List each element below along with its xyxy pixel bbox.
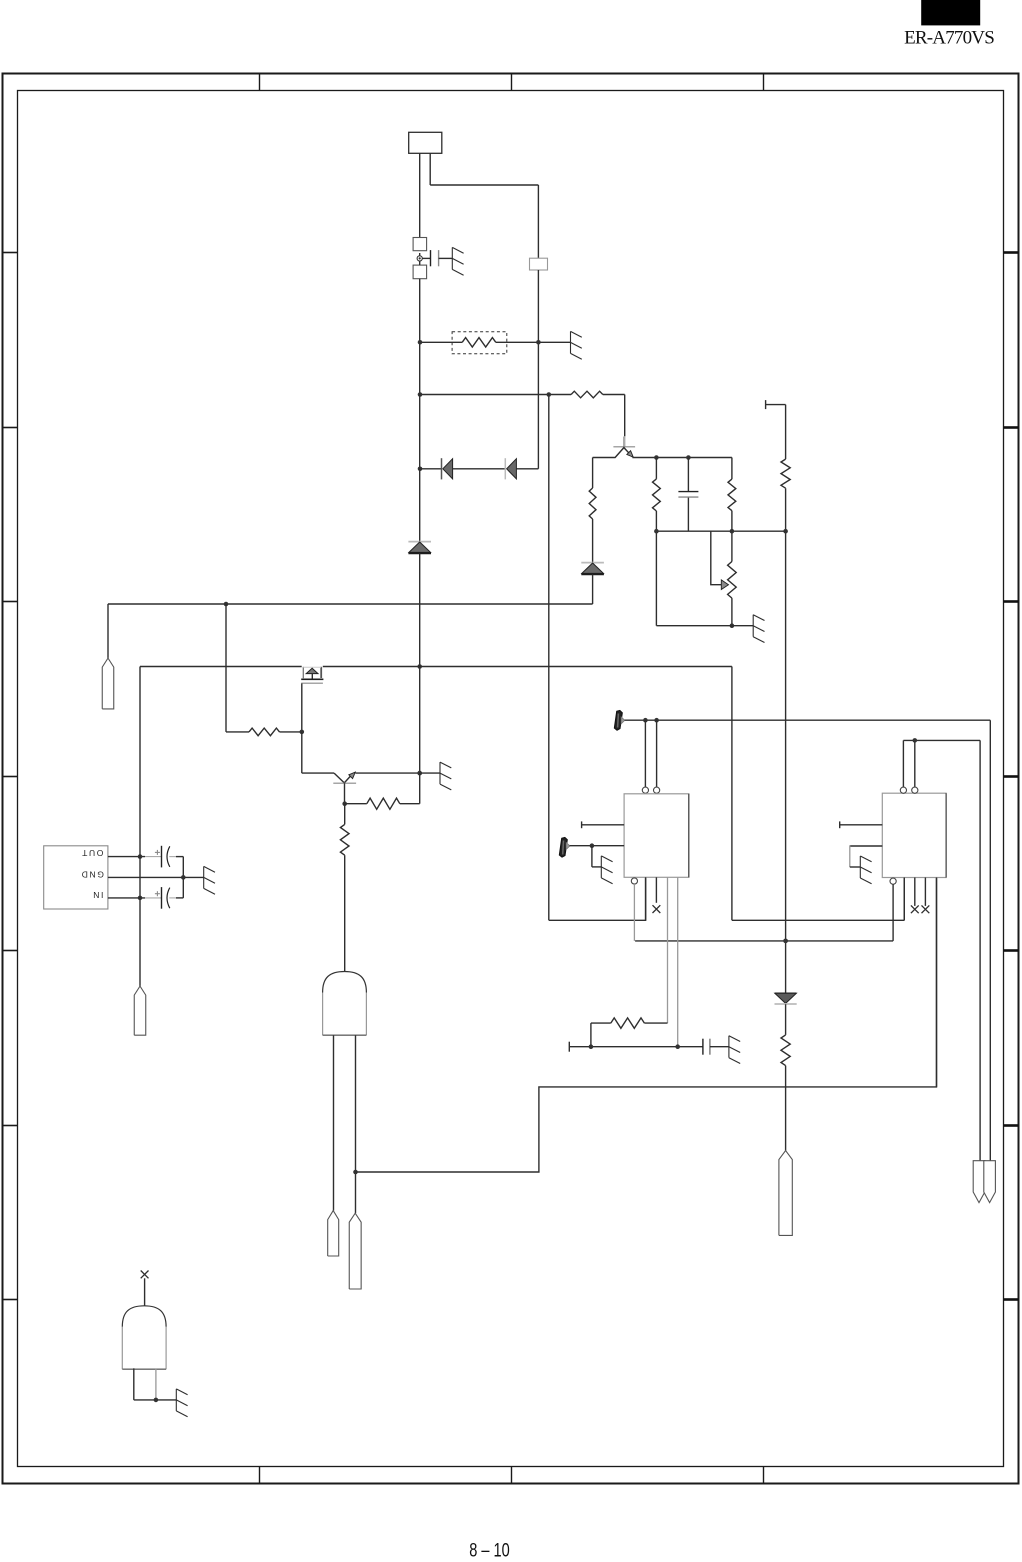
svg-text:IN: IN <box>92 890 104 900</box>
svg-text:GND: GND <box>80 870 104 880</box>
svg-text:8 – 10: 8 – 10 <box>469 1541 510 1558</box>
svg-text:OUT: OUT <box>81 848 104 858</box>
svg-text:ER-A770VS: ER-A770VS <box>904 28 994 49</box>
